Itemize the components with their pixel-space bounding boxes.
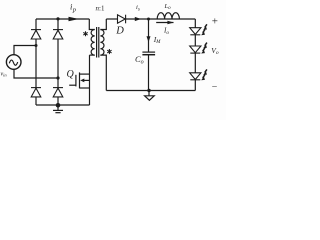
svg-text:vin: vin <box>1 71 8 77</box>
svg-text:D: D <box>115 25 124 36</box>
svg-text:–: – <box>211 81 217 91</box>
svg-text:Q: Q <box>67 69 75 80</box>
svg-text:n:1: n:1 <box>96 5 105 13</box>
svg-text:+: + <box>212 15 218 27</box>
